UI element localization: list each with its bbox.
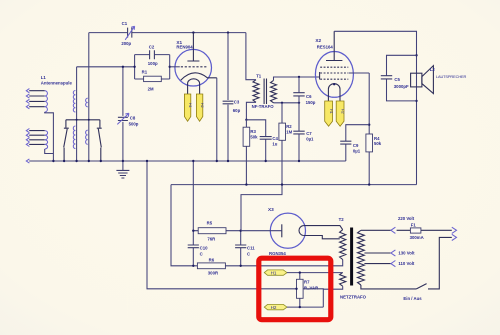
- X2 heater pin H2: [336, 101, 344, 126]
- transformer T2 NETZTRAFO: [339, 217, 367, 299]
- wire X1 cathode down: [216, 78, 218, 161]
- mains prong top: [452, 227, 457, 233]
- svg-text:RGN354: RGN354: [269, 251, 286, 256]
- pentode X2 RES164: [315, 31, 369, 126]
- svg-text:200p: 200p: [121, 41, 131, 46]
- svg-text:X3: X3: [268, 207, 274, 212]
- resistor R2: [279, 103, 293, 185]
- svg-text:RES164: RES164: [317, 44, 334, 49]
- capacitor C11: [240, 231, 242, 266]
- svg-text:1u: 1u: [272, 142, 277, 147]
- X1 filament: [188, 79, 200, 94]
- X3 filament: [299, 226, 303, 236]
- 220V tap: [361, 229, 391, 231]
- svg-text:C10: C10: [200, 245, 208, 250]
- T2 heater winding H: [340, 272, 346, 286]
- wire T1 secondary bottom: [274, 102, 300, 104]
- svg-text:R_VAR: R_VAR: [304, 285, 319, 290]
- wire L1 upper to bus: [45, 112, 54, 161]
- svg-text:C11: C11: [247, 245, 255, 250]
- X1 grid wire: [170, 66, 180, 68]
- wire H2: [287, 306, 323, 308]
- svg-text:60p: 60p: [233, 108, 241, 113]
- ground: [116, 161, 129, 178]
- svg-text:C7: C7: [306, 131, 312, 136]
- T2 primary winding: [358, 230, 365, 285]
- svg-text:NF-TRAFO: NF-TRAFO: [252, 104, 275, 109]
- capacitor C4: [246, 120, 278, 161]
- svg-text:T1: T1: [256, 73, 262, 78]
- wire switch yoke: [66, 120, 100, 128]
- tag H1: [264, 270, 287, 275]
- svg-text:130 Volt: 130 Volt: [398, 251, 415, 256]
- coil A upper winding: [73, 91, 75, 113]
- svg-text:REN904: REN904: [176, 45, 193, 50]
- wire X3 filament bottom: [303, 236, 340, 239]
- wire R7 right link: [303, 286, 343, 307]
- X3 anode: [281, 224, 283, 237]
- tag H2: [264, 304, 287, 309]
- switch S2: [97, 128, 102, 161]
- svg-text:Ein / Aus: Ein / Aus: [403, 296, 422, 301]
- svg-text:C6: C6: [306, 94, 312, 99]
- X1 plate: [187, 33, 199, 61]
- wire grid tank top: [77, 66, 135, 68]
- svg-text:R4: R4: [374, 136, 380, 141]
- screen dropper R4: [366, 73, 382, 185]
- resistor R1: [144, 76, 162, 81]
- svg-text:C3: C3: [234, 100, 240, 105]
- svg-text:C2: C2: [149, 45, 155, 50]
- svg-text:100p: 100p: [148, 61, 158, 66]
- svg-text:R1: R1: [142, 70, 148, 75]
- wire B+ to heater return: [171, 185, 193, 266]
- node X1 plate: [192, 31, 194, 33]
- X1 heater pin H2: [196, 94, 202, 121]
- node C3 top: [227, 31, 229, 33]
- capacitor C1: [121, 21, 134, 46]
- potentiometer R7: [299, 273, 301, 308]
- svg-text:76R: 76R: [207, 236, 216, 241]
- capacitor C6: [293, 77, 315, 105]
- L1 upper taps: [29, 91, 45, 107]
- loudspeaker L2: [411, 66, 467, 94]
- coil B lower winding: [86, 130, 88, 144]
- resistor R6: [193, 265, 240, 267]
- svg-text:NETZTRAFO: NETZTRAFO: [340, 294, 367, 299]
- bus junction nodes: [52, 160, 300, 162]
- svg-text:R5: R5: [207, 220, 213, 225]
- resistor R5: [193, 230, 240, 232]
- X2 screen wire: [349, 72, 369, 74]
- capacitor C2: [150, 50, 155, 59]
- svg-text:H2: H2: [200, 103, 204, 108]
- T2 heater winding X3: [340, 230, 346, 260]
- 130V tap: [364, 252, 391, 254]
- svg-text:T2: T2: [339, 217, 345, 222]
- L1 lower taps: [29, 131, 45, 145]
- svg-text:220 Volt: 220 Volt: [398, 216, 415, 221]
- rectifier X3 RGN354: [241, 207, 343, 256]
- svg-text:300R: 300R: [208, 271, 219, 276]
- coil A lower winding: [73, 126, 75, 149]
- smoothing chain: [188, 161, 343, 276]
- wire X2 plate rail: [334, 31, 416, 184]
- X1 cathode arc: [181, 73, 217, 80]
- fuse F1: [397, 229, 452, 231]
- svg-text:C9: C9: [353, 143, 359, 148]
- X2 heater pin H1: [325, 101, 333, 126]
- coil B upper winding: [86, 98, 88, 107]
- svg-text:H1: H1: [188, 103, 192, 108]
- heater hum network: [147, 161, 343, 310]
- svg-text:R6: R6: [209, 258, 215, 263]
- ground bus: [29, 160, 346, 162]
- svg-text:H1: H1: [329, 109, 333, 114]
- capacitor C8 variable: [117, 67, 138, 161]
- svg-text:C5: C5: [394, 77, 400, 82]
- wire H1 to winding: [287, 272, 343, 274]
- svg-text:H2: H2: [341, 109, 345, 114]
- svg-text:H1: H1: [271, 271, 277, 276]
- svg-text:3000pF: 3000pF: [394, 84, 409, 89]
- wire T1 secondary top to grid: [274, 77, 320, 80]
- highlight red box: [259, 258, 331, 320]
- wire R6 to heater winding: [241, 260, 343, 266]
- svg-text:R2: R2: [286, 124, 292, 129]
- T2 core: [350, 228, 353, 286]
- X2 filament: [328, 84, 340, 101]
- X2 plate: [326, 31, 342, 60]
- svg-text:C: C: [200, 251, 203, 256]
- svg-text:LAUTSPRECHER: LAUTSPRECHER: [436, 74, 467, 79]
- svg-text:X2: X2: [315, 38, 321, 43]
- wire T1 primary bottom: [246, 102, 256, 120]
- X1 heater pin H1: [184, 94, 190, 121]
- antenna coil L1: [26, 75, 72, 161]
- X2 grids: [320, 67, 348, 79]
- svg-text:0µ1: 0µ1: [353, 148, 361, 153]
- capacitor C5: [381, 55, 417, 101]
- svg-text:H2: H2: [271, 305, 277, 310]
- B+ feed line: [171, 184, 417, 186]
- capacitor C7: [293, 103, 314, 161]
- wire X3 filament top: [303, 226, 342, 230]
- 110V tap: [364, 263, 391, 265]
- capacitor C10: [188, 245, 199, 248]
- triode X1 REN904: [170, 33, 217, 122]
- wire tuning coil B: [88, 33, 90, 161]
- svg-text:Antennenspule: Antennenspule: [41, 80, 73, 85]
- L1 lower winding: [45, 131, 48, 149]
- svg-text:110 Volt: 110 Volt: [398, 261, 414, 266]
- wire bias jog: [241, 185, 282, 231]
- wire tuning coil A: [76, 67, 78, 161]
- svg-text:150p: 150p: [306, 100, 316, 105]
- T1 primary winding: [253, 80, 259, 103]
- switch Ein/Aus: [361, 237, 452, 289]
- capacitor C9: [340, 125, 369, 161]
- grid block C2/R1: [135, 45, 170, 92]
- svg-text:C1: C1: [122, 21, 128, 26]
- wire L1 lower to bus: [45, 149, 54, 154]
- L1 upper winding: [45, 91, 48, 112]
- svg-text:L2: L2: [430, 67, 436, 72]
- svg-text:500p: 500p: [129, 121, 139, 126]
- svg-text:C8: C8: [130, 116, 136, 121]
- transformer T1 NF-TRAFO: [246, 33, 320, 120]
- svg-text:F1: F1: [411, 222, 417, 227]
- svg-text:50k: 50k: [250, 134, 258, 139]
- svg-text:C: C: [247, 251, 250, 256]
- svg-text:50k: 50k: [374, 141, 382, 146]
- svg-text:300mA: 300mA: [410, 235, 424, 240]
- capacitor C3: [223, 33, 241, 161]
- wire top B+ plate rail: [89, 32, 246, 34]
- svg-text:R3: R3: [250, 129, 256, 134]
- wire wiper line: [147, 161, 297, 289]
- T1 core: [264, 79, 266, 105]
- T1 secondary winding: [271, 80, 277, 102]
- svg-text:R7: R7: [304, 279, 310, 284]
- svg-text:C4: C4: [272, 136, 278, 141]
- resistor R3: [243, 120, 258, 185]
- wire T1 primary top: [246, 33, 256, 80]
- switch S1: [64, 128, 69, 161]
- svg-text:0µ1: 0µ1: [306, 137, 314, 142]
- svg-text:1M: 1M: [286, 130, 292, 135]
- svg-text:2M: 2M: [148, 87, 154, 92]
